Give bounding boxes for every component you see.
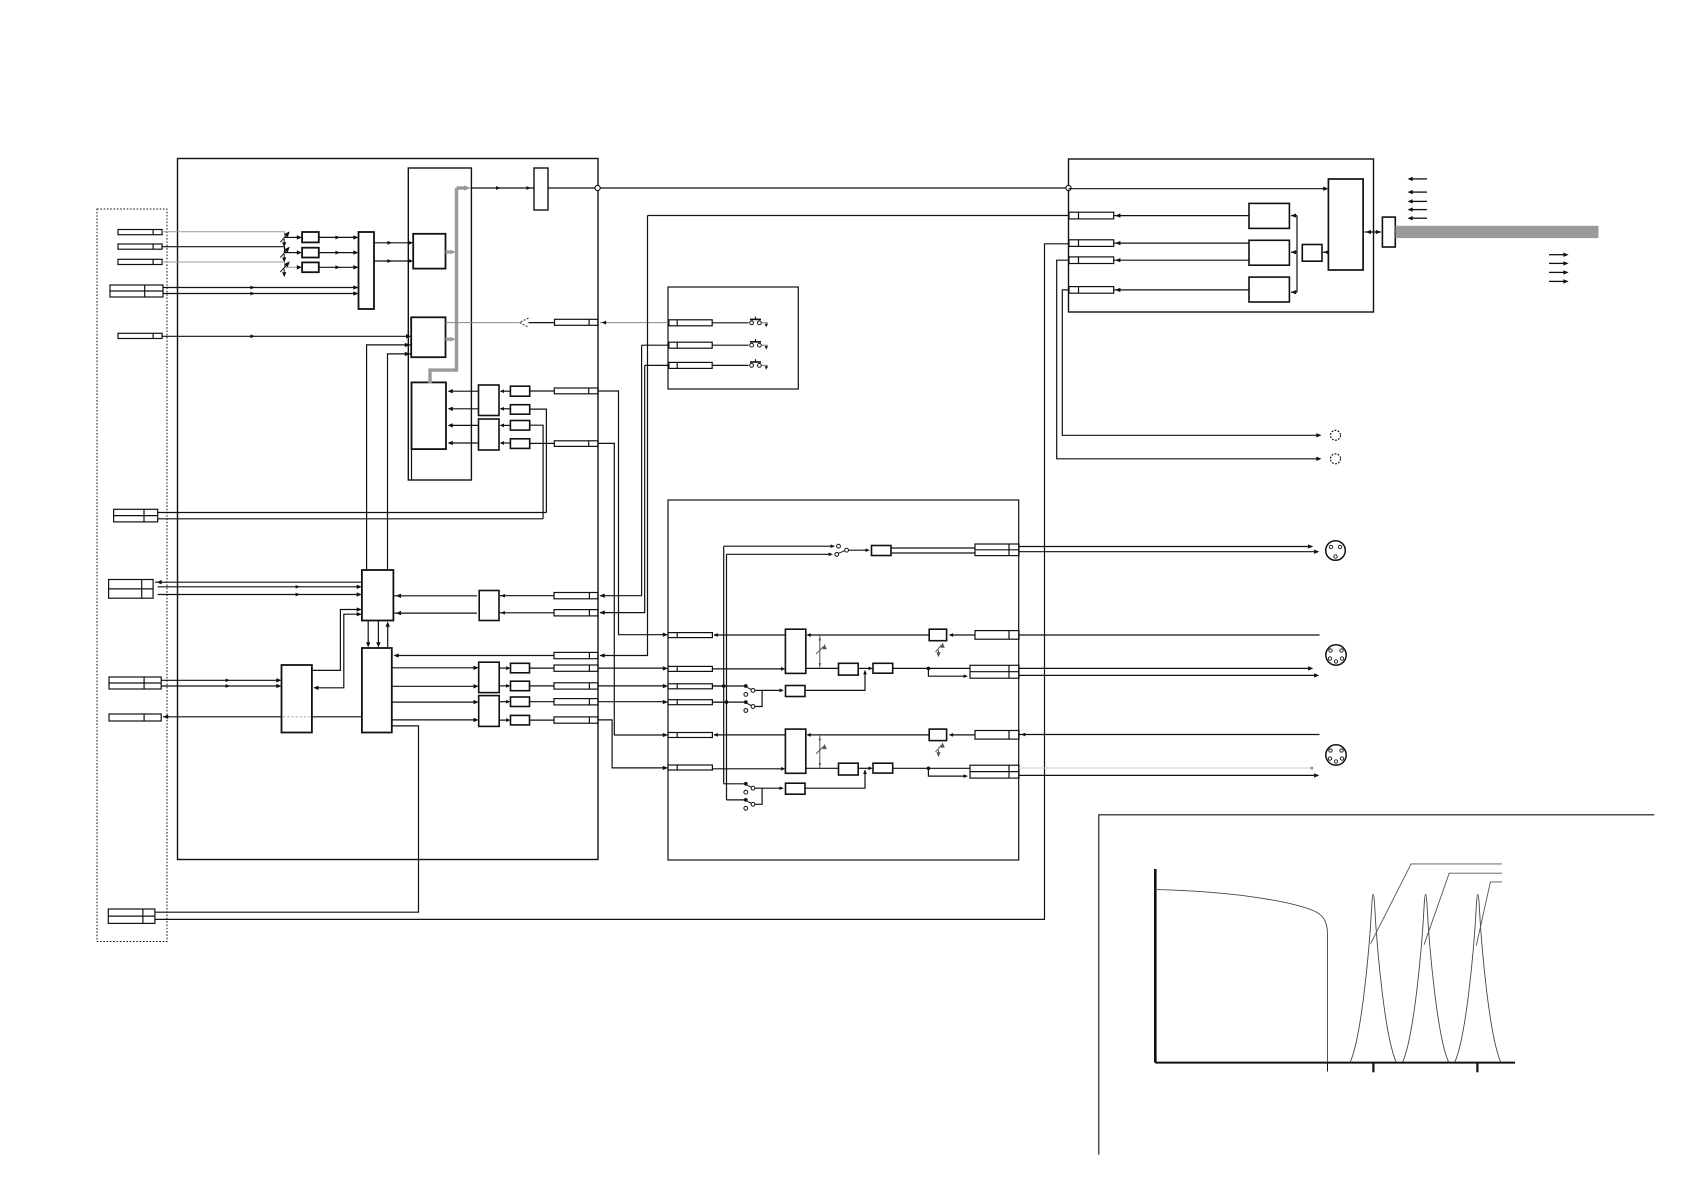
connector CN12: [554, 388, 598, 394]
din jack J5: [1326, 541, 1346, 561]
pot vol2: [816, 745, 826, 754]
block F1: [479, 662, 500, 692]
gray bus feed U3: [446, 338, 453, 341]
wire tape mon C: [712, 685, 723, 687]
wire row4: [530, 667, 555, 669]
graph x-axis: [1155, 1062, 1515, 1064]
block A3: [302, 262, 319, 272]
wire U4 stub: [411, 449, 413, 480]
graph frame: [1099, 815, 1655, 1155]
din jack J6: [1326, 645, 1346, 665]
crt drive box: [1069, 159, 1374, 312]
wire U1 out1: [374, 242, 412, 244]
wire S4 out: [849, 549, 868, 551]
wire row4 ext: [598, 667, 666, 669]
block G2: [511, 681, 530, 691]
wire row7: [530, 719, 555, 721]
block U2: [413, 234, 445, 269]
connector CN6: [114, 509, 158, 522]
connector CN17: [554, 665, 598, 671]
wire E1-E2 video: [163, 716, 282, 718]
block U4: [412, 382, 447, 449]
wire amp out: [806, 767, 839, 769]
wire C2-B1: [501, 408, 510, 410]
wire row6: [530, 701, 555, 703]
block H1: [1249, 203, 1289, 228]
pot PV1: [936, 644, 945, 656]
switch S4: [724, 545, 832, 547]
buffer M1: [929, 629, 946, 641]
wire Ja-Jb: [858, 767, 871, 769]
wire F2-G3: [499, 701, 509, 703]
wire B2-U4 a: [449, 424, 479, 426]
block H5 (video out): [1328, 179, 1363, 270]
wire row5 ext: [598, 685, 666, 687]
pushbutton S3: [712, 364, 748, 366]
wire S3 link: [645, 364, 669, 366]
wire sync in 1: [163, 287, 357, 289]
wire B input: [162, 262, 285, 267]
pot vol1: [816, 645, 826, 654]
graph y-axis: [1154, 869, 1157, 1063]
wire CN7 out: [155, 581, 362, 583]
wire U1 out2: [374, 260, 412, 262]
wire D1-E2 a: [367, 621, 369, 646]
wire va: [723, 546, 725, 784]
connector CN10: [108, 909, 155, 923]
connector CN29: [970, 665, 1019, 678]
pot RV3: [280, 262, 289, 276]
wire CN10 b: [155, 244, 1069, 920]
pot RV2: [280, 248, 289, 262]
wire ext sync: [162, 335, 409, 337]
connector CN3: [118, 259, 162, 264]
block J1a: [839, 663, 859, 675]
wire Jb out: [893, 767, 970, 769]
connector CN9: [109, 714, 161, 721]
wire line in: [712, 768, 783, 770]
audio board box: [668, 500, 1019, 860]
rca jack J4: [1331, 430, 1341, 440]
graph resonance bells: [1350, 894, 1396, 1062]
connector CNB: [668, 666, 712, 671]
wire row7 ext: [598, 720, 666, 768]
connector CN25: [1069, 240, 1114, 247]
crt neck bar: [1396, 226, 1599, 238]
graph ramp 2: [1424, 873, 1502, 945]
wire video out: [471, 187, 535, 189]
connector CN26: [1069, 257, 1114, 264]
gray bus feed U2: [446, 250, 453, 253]
wire C1 ext: [598, 391, 666, 635]
connector CN22: [669, 342, 712, 348]
block E1: [282, 665, 312, 733]
block F2: [479, 696, 500, 727]
block A1: [302, 232, 319, 242]
block C3: [510, 421, 529, 431]
wire E2 down: [155, 726, 419, 912]
wire row3: [395, 655, 555, 657]
wire row5: [530, 685, 555, 687]
node J2: [1066, 185, 1071, 190]
wire CN8 b: [161, 685, 279, 687]
wire A1 out: [319, 236, 357, 238]
wire Ja-Jb: [858, 667, 871, 669]
block C2: [510, 405, 529, 415]
arrow out 1: [1549, 254, 1564, 256]
pushbutton S2: [712, 344, 748, 346]
wire H1 row: [1114, 215, 1249, 217]
connector CN32: [975, 731, 1019, 740]
block G4: [511, 715, 530, 725]
wire C3 out: [530, 425, 543, 519]
wire CN6 a: [158, 512, 547, 514]
gray bus: [430, 188, 457, 384]
connector CNA: [668, 633, 712, 638]
wire E2-F1 a: [392, 667, 477, 669]
pot PV2: [936, 744, 945, 756]
wire C1 out: [530, 390, 555, 392]
wire N2 out: [805, 770, 865, 788]
connector CN16: [554, 652, 598, 658]
wire B2-U4 b: [449, 442, 479, 444]
wire vol riser: [819, 635, 821, 668]
arrow in 3: [1412, 200, 1427, 202]
wire D1-E2 b: [377, 621, 379, 646]
block H3: [1249, 277, 1289, 302]
wire H5-H4: [1322, 251, 1328, 253]
block D1: [362, 570, 394, 621]
sub-board box: [408, 168, 471, 480]
wire monitor in: [951, 634, 976, 636]
connector CN27: [1069, 287, 1114, 294]
wire monitor2 out ext: [1019, 734, 1320, 736]
graph tick 3: [1476, 1063, 1478, 1073]
wire monitor thru: [714, 634, 785, 636]
wire C4-B2: [501, 442, 510, 444]
wire H4 ext: [1062, 290, 1317, 435]
wire E2-F2 b: [392, 719, 477, 721]
wire lineout3 b: [1019, 774, 1314, 776]
arrow in 4: [1412, 209, 1427, 211]
connector CNE: [668, 733, 712, 738]
wire R input: [162, 232, 285, 238]
block U3: [411, 317, 445, 357]
arrow out 2: [1549, 262, 1564, 264]
wire sync to crt: [648, 215, 1070, 217]
wire bias bus: [1296, 216, 1298, 293]
graph tick 1: [1327, 1063, 1329, 1072]
wire amp out: [806, 667, 839, 669]
wire lineout3 a: [1019, 767, 1310, 769]
amp L2: [785, 729, 805, 773]
block G1: [511, 663, 530, 673]
block B1: [479, 385, 500, 416]
wire C2 out: [530, 409, 547, 512]
wire row6 ext: [598, 701, 666, 703]
connector CN8: [109, 677, 161, 689]
pot RV1: [280, 232, 289, 246]
wire U3 in3: [388, 354, 412, 570]
block H4: [1302, 245, 1322, 262]
wire N1 out: [805, 671, 865, 691]
connector CN28: [975, 544, 1019, 556]
block C1: [510, 386, 529, 396]
wire monitor out ext: [1019, 634, 1320, 636]
wire G input: [162, 247, 285, 253]
input connector panel (dashed): [97, 209, 167, 942]
graph response curve: [1157, 890, 1328, 1062]
block G3: [511, 697, 530, 707]
block N2: [786, 783, 806, 794]
connector CND: [668, 700, 712, 705]
block J2b: [873, 763, 893, 773]
wire A2 out: [319, 252, 357, 254]
wire H2 row: [1114, 242, 1249, 244]
connector CN18: [554, 683, 598, 689]
crt socket: [1382, 217, 1395, 247]
connector CN13: [554, 441, 598, 447]
wire H4 row: [1114, 289, 1249, 291]
wire row2: [394, 612, 477, 614]
block J2a: [839, 763, 859, 775]
wire CN8 a: [161, 679, 279, 681]
wire F2-G4: [499, 719, 509, 721]
wire lineout b: [1019, 551, 1314, 553]
wire A3 out: [319, 266, 357, 268]
wire F1-G1: [499, 667, 509, 669]
wire E2-F1 b: [392, 685, 477, 687]
connector CN15: [554, 610, 598, 616]
arrow in 2: [1412, 191, 1427, 193]
wire line in: [712, 668, 783, 670]
connector CNF: [668, 765, 712, 770]
wire E1-D1 b: [315, 614, 361, 688]
connector CN14: [554, 593, 598, 599]
block C4: [510, 439, 529, 449]
connector CN20: [554, 717, 598, 723]
wire C3-B2: [501, 424, 510, 426]
connector CN5: [118, 333, 162, 338]
wire CN7 in1: [158, 586, 360, 588]
wire C4 out: [530, 442, 555, 444]
wire E2-D1: [387, 623, 389, 648]
wire S2 link: [642, 344, 669, 346]
connector CN7: [109, 580, 154, 599]
node J1: [595, 185, 600, 190]
arrow out 4: [1549, 280, 1564, 282]
wire K1 out a: [891, 547, 975, 549]
block B2: [479, 419, 500, 450]
wire row1 ext: [600, 345, 642, 596]
wire B1-U4 b: [449, 408, 479, 410]
wire tape mon D: [712, 701, 726, 703]
block N1: [786, 686, 806, 697]
block A2: [302, 248, 319, 258]
arrow out 3: [1549, 271, 1564, 273]
wire vol riser: [819, 735, 821, 768]
wire E1-D1 a: [312, 610, 360, 671]
connector CN11: [555, 319, 599, 325]
connector CN30: [975, 631, 1019, 640]
connector CNC: [668, 684, 712, 689]
arrow in 5: [1412, 217, 1427, 219]
wire row2 ext: [600, 365, 645, 612]
connector CN4: [110, 285, 163, 297]
wire H3 ext: [1057, 260, 1317, 459]
block J1b: [873, 663, 893, 673]
wire lineout a: [1019, 546, 1308, 548]
din jack J7: [1326, 745, 1346, 765]
wire E2-F2 a: [392, 701, 477, 703]
wire Jb out: [893, 667, 970, 669]
mux bar U1: [359, 232, 375, 309]
wire row1: [394, 595, 477, 597]
wire row3 ext: [600, 216, 648, 656]
connector CN1: [118, 230, 162, 235]
connector CN21: [669, 320, 712, 326]
control switch box: [668, 287, 798, 389]
pushbutton S1: [712, 322, 748, 324]
graph tick 2: [1372, 1063, 1374, 1073]
wire vb: [726, 554, 728, 800]
graph ramp 1: [1371, 864, 1502, 944]
rca jack J3: [1331, 454, 1341, 464]
wire C4 ext: [598, 443, 666, 735]
connector CN31: [970, 765, 1019, 778]
block H2: [1249, 240, 1289, 265]
connector CN2: [118, 244, 162, 249]
wire sync in 2: [163, 293, 357, 295]
block delay: [534, 168, 548, 210]
wire CN6 b: [158, 518, 543, 520]
wire H3 row: [1114, 259, 1249, 261]
wire K1 out b: [891, 552, 975, 554]
wire C1-B1: [501, 390, 510, 392]
block K1: [872, 546, 892, 556]
connector CN24: [1069, 212, 1114, 219]
graph ramp 3: [1476, 882, 1502, 946]
amp L1: [785, 629, 805, 673]
wire CN7 in2: [158, 594, 360, 596]
wire crt bidir: [1365, 231, 1382, 233]
wire monitor in: [951, 734, 976, 736]
wire monitor thru: [714, 734, 785, 736]
wire lineout2 a: [1019, 667, 1308, 669]
wire F1-G2: [499, 685, 509, 687]
block E2: [362, 648, 392, 733]
wire lineout2 b: [1019, 674, 1314, 676]
main board box: [178, 159, 599, 860]
selector SW1: [712, 685, 745, 687]
wire comb control: [446, 322, 520, 324]
buffer M2: [929, 729, 946, 741]
selector SW2: [724, 783, 746, 785]
arrow in 1: [1412, 178, 1427, 180]
wire video to H5: [1069, 188, 1328, 190]
wire U3 in2: [367, 345, 412, 570]
connector CN23: [669, 362, 712, 368]
connector CN19: [554, 699, 598, 705]
wire B1-U4 a: [449, 390, 479, 392]
block D2: [479, 591, 499, 621]
